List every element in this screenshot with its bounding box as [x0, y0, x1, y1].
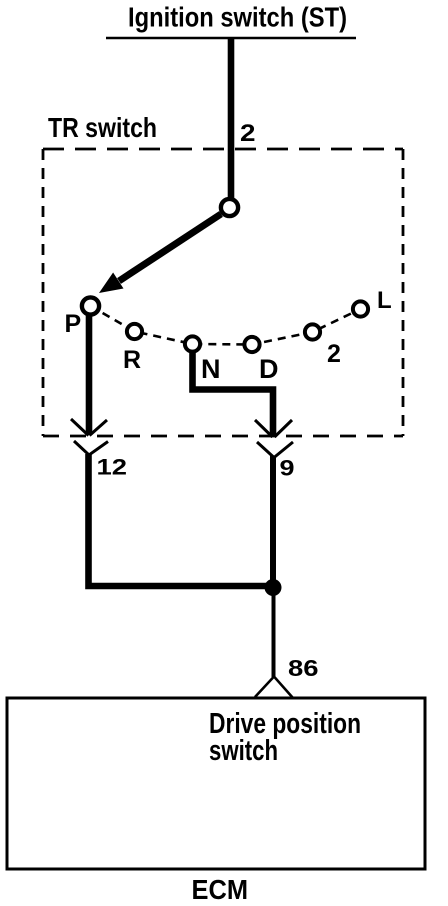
contact R circle [127, 324, 142, 339]
junction node [265, 579, 282, 596]
svg-text:2: 2 [327, 340, 341, 368]
svg-text:86: 86 [288, 655, 319, 681]
wire from N down, right, down to connector 9 [193, 350, 274, 435]
wire from connector 12 down and right to junction [89, 454, 274, 586]
contact D circle [244, 337, 259, 352]
contact P circle [82, 297, 99, 314]
switch wiper arm (arrow from common contact to P) [119, 214, 221, 281]
contact L circle [353, 301, 368, 316]
svg-text:R: R [123, 346, 141, 374]
svg-text:L: L [377, 287, 392, 314]
svg-text:2: 2 [240, 120, 256, 147]
connector 12 male arrow [71, 419, 107, 436]
svg-text:P: P [65, 310, 82, 338]
ECM pin 86 connector chevron [255, 677, 293, 699]
ignition switch bus line [106, 37, 356, 40]
contact N circle [185, 336, 200, 351]
svg-text:12: 12 [97, 455, 128, 480]
wire from ignition switch to TR switch contact [228, 38, 235, 207]
common contact circle [221, 199, 238, 216]
contact 2 circle [305, 324, 320, 339]
connector 12 female chevron [74, 441, 108, 455]
dashed position arc P-R-N-D-2-L [91, 306, 361, 345]
svg-text:TR switch: TR switch [48, 112, 157, 143]
svg-text:N: N [201, 354, 221, 384]
TR switch dashed box [43, 149, 403, 436]
svg-text:D: D [259, 354, 279, 384]
connector 9 female chevron [257, 442, 293, 458]
svg-text:Ignition switch (ST): Ignition switch (ST) [128, 2, 347, 33]
wire from P down to connector 12 [86, 314, 93, 434]
connector 9 male arrow [255, 420, 292, 437]
ECM box [7, 698, 425, 869]
svg-text:9: 9 [280, 456, 295, 481]
wire from junction down to ECM pin 86 [272, 588, 276, 677]
svg-text:ECM: ECM [192, 874, 249, 905]
svg-text:switch: switch [209, 735, 278, 767]
wire from connector 9 down to junction [270, 456, 276, 590]
